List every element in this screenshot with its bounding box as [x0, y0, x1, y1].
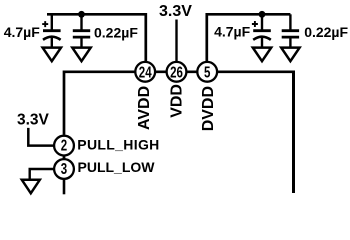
svg-text:5: 5: [204, 63, 211, 81]
wire: lead from junction to C2: [80, 14, 82, 29]
ground: under C4: [281, 48, 299, 62]
svg-text:4.7µF: 4.7µF: [214, 24, 251, 40]
pin 3: [54, 159, 74, 179]
svg-text:VDD: VDD: [168, 84, 185, 118]
wire: lead from top wire to C1 top plate: [51, 14, 53, 29]
wire: top-left net horizontal then down to pin 24: [47, 14, 146, 62]
junction dot: top-right net at C3: [259, 11, 266, 18]
wire: lead from top wire to C4: [289, 14, 291, 29]
capacitor C3 4.7uF (polarized, right group): [252, 21, 271, 47]
pin name PULL_LOW: [78, 159, 156, 175]
pin 24: [135, 62, 155, 82]
value label 4.7uF (left): [4, 24, 41, 40]
svg-text:DVDD: DVDD: [200, 86, 217, 131]
svg-text:AVDD: AVDD: [136, 86, 153, 130]
wire: pin 5 up and right (top-right net): [207, 14, 291, 62]
capacitor C4 0.22uF (right group): [282, 31, 299, 48]
ground: under C2: [72, 48, 90, 62]
svg-text:2: 2: [61, 135, 68, 153]
value label 0.22uF (right): [304, 24, 348, 40]
svg-text:PULL_LOW: PULL_LOW: [78, 159, 156, 175]
wire: 3.3V to pin 2: [28, 128, 54, 146]
svg-text:0.22µF: 0.22µF: [94, 24, 138, 40]
wire: main supply bus with left drop to pin 2 and right drop: [64, 72, 294, 135]
value label 0.22uF (left): [94, 24, 138, 40]
net label 3.3V (top): [159, 3, 192, 20]
ground: under C3: [253, 48, 271, 62]
wire: pin 3 to ground: [30, 169, 54, 180]
pin 26: [167, 62, 187, 82]
capacitor C1 4.7uF (polarized, left group): [42, 21, 60, 47]
pin name AVDD: [136, 86, 153, 130]
svg-text:0.22µF: 0.22µF: [304, 24, 348, 40]
wire: stub between pin 2 and pin 3: [63, 155, 66, 161]
ground: bottom-left: [22, 180, 40, 194]
value label 4.7uF (right): [214, 24, 251, 40]
wire: right drop of bus: [292, 71, 295, 194]
ground: under C1: [43, 48, 61, 62]
pin name VDD: [168, 84, 185, 118]
svg-text:24: 24: [139, 63, 152, 81]
wire: 3.3V down to pin 26: [175, 20, 177, 63]
svg-text:PULL_HIGH: PULL_HIGH: [77, 137, 159, 153]
svg-text:26: 26: [170, 63, 183, 81]
pin name PULL_HIGH: [77, 137, 159, 153]
pin name DVDD: [200, 86, 217, 131]
wire: lead from junction to C3: [261, 14, 263, 29]
svg-text:3.3V: 3.3V: [159, 3, 192, 20]
svg-text:3.3V: 3.3V: [17, 111, 50, 128]
svg-text:3: 3: [61, 159, 68, 177]
pin 5: [197, 62, 217, 82]
pin 2: [54, 135, 74, 155]
capacitor C2 0.22uF (left group): [73, 31, 90, 48]
net label 3.3V (left): [17, 111, 50, 128]
junction dot: top-left net at C2: [78, 11, 85, 18]
wire: stub below pin 3: [63, 179, 66, 194]
svg-text:4.7µF: 4.7µF: [4, 24, 41, 40]
